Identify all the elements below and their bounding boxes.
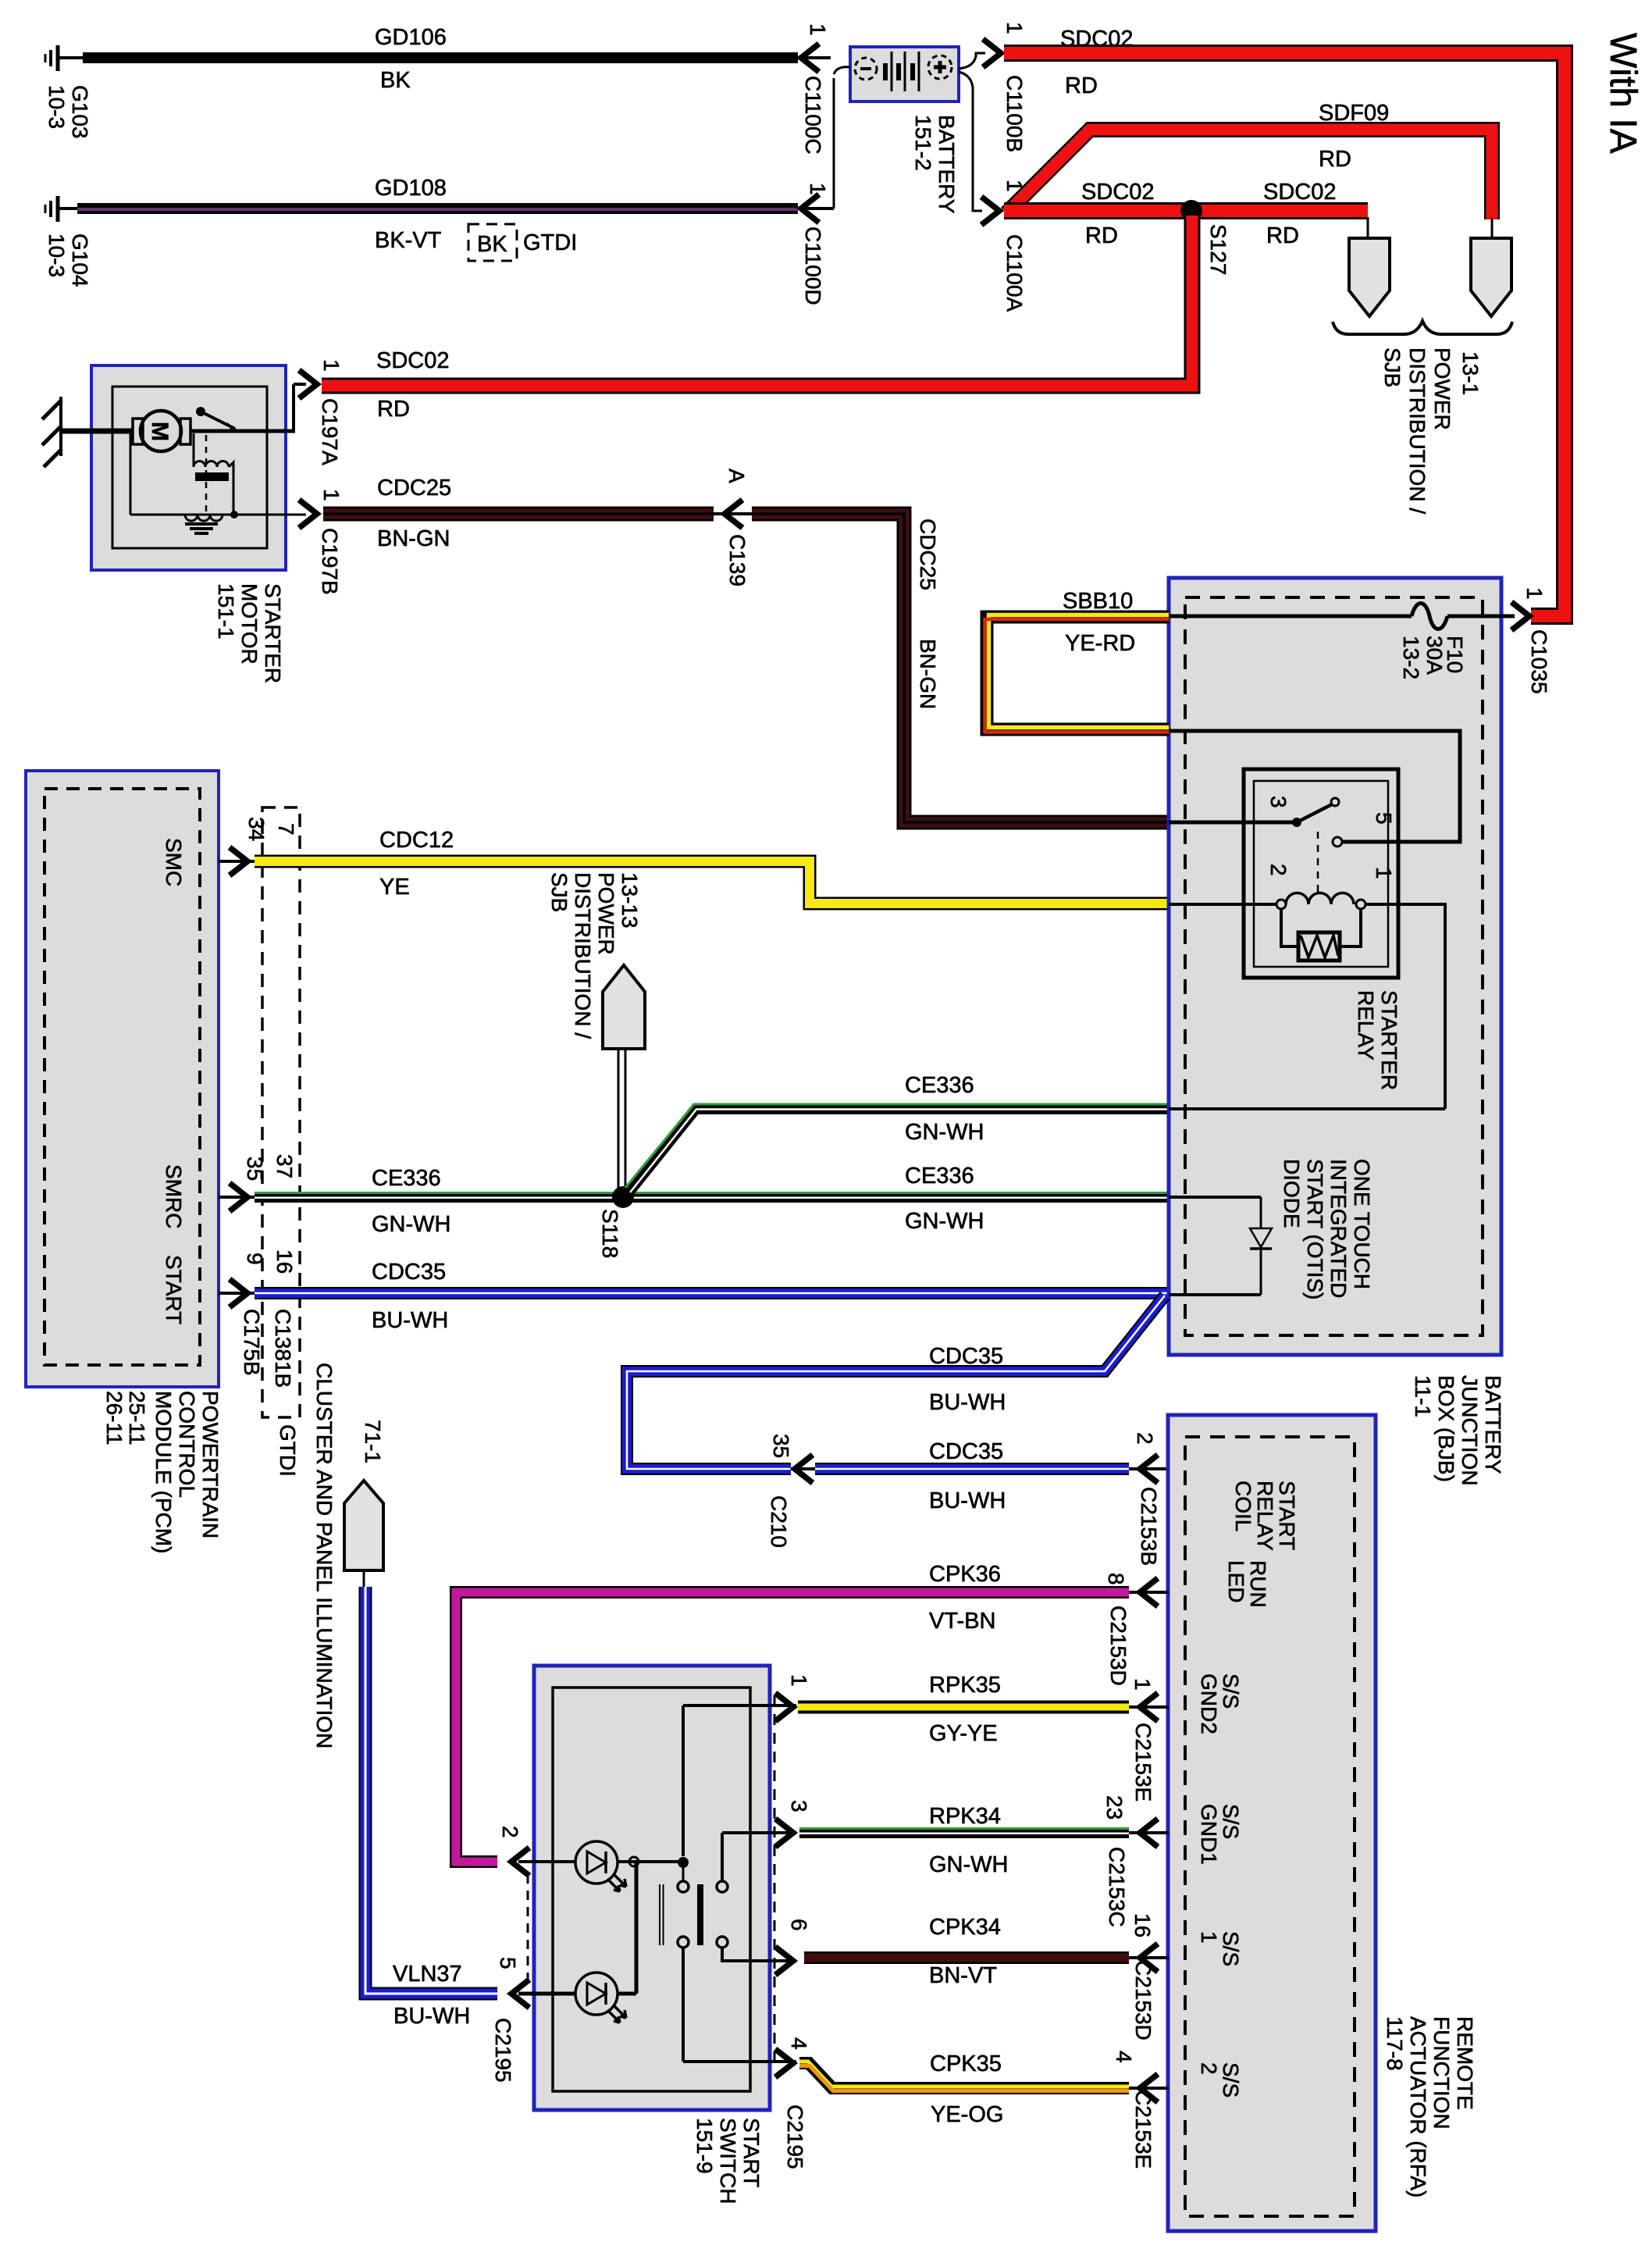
connector C2153D pin 8 (1104, 1573, 1169, 1686)
svg-text:GTDI: GTDI (523, 230, 577, 255)
svg-text:BK: BK (380, 68, 411, 93)
ground G103 (45, 45, 92, 139)
wire pin3 internal (722, 1833, 796, 1881)
wire coil to CE336 internal (1169, 903, 1445, 1109)
wire CPK34 (804, 1915, 1129, 1988)
connector 13-13 power distribution SJB (547, 872, 645, 1190)
connector C2153E pin 1 (1129, 1678, 1169, 1802)
svg-text:C1100A: C1100A (1002, 234, 1027, 312)
svg-text:CPK34: CPK34 (929, 1915, 1001, 1940)
battery junction box BJB (1169, 578, 1505, 1486)
svg-text:C2195: C2195 (491, 2018, 515, 2083)
svg-text:3: 3 (787, 1800, 811, 1812)
pin 35 SMRC (219, 1183, 258, 1211)
svg-text:71-1: 71-1 (361, 1420, 385, 1463)
svg-text:23: 23 (1102, 1795, 1127, 1820)
svg-text:16: 16 (1130, 1913, 1155, 1937)
connector C1100C (798, 23, 831, 155)
svg-text:BU-WH: BU-WH (393, 2004, 470, 2029)
svg-text:8: 8 (1104, 1573, 1128, 1585)
wire CDC35 PCM to BJB (255, 1260, 1169, 1333)
svg-text:2: 2 (1133, 1432, 1157, 1445)
wire SDC02 battery to SJB (1004, 180, 1368, 248)
svg-text:CPK36: CPK36 (929, 1562, 1001, 1587)
LED2 illumination (575, 1973, 626, 2023)
svg-text:RD: RD (377, 397, 410, 422)
wire SDF09 (1006, 101, 1492, 240)
svg-text:13-1: 13-1 (1458, 351, 1483, 395)
svg-text:C2153D: C2153D (1131, 1960, 1155, 2040)
svg-text:YE-RD: YE-RD (1065, 631, 1135, 656)
svg-text:5: 5 (496, 1957, 520, 1969)
svg-text:1: 1 (319, 359, 344, 372)
connector C197B (299, 489, 344, 595)
svg-text:RD: RD (1085, 223, 1118, 248)
wire RPK35 (798, 1673, 1129, 1746)
connector C139 (714, 469, 752, 586)
wire CDC35 BJB to C210 to RFA (627, 1296, 1165, 1513)
remote function actuator RFA (1168, 1415, 1477, 2231)
svg-text:CLUSTER AND PANEL ILLUMINATION: CLUSTER AND PANEL ILLUMINATION (312, 1363, 336, 1748)
wire CPK36 (456, 1562, 1129, 1862)
svg-text:C2153B: C2153B (1137, 1487, 1161, 1566)
svg-text:C1100C: C1100C (801, 76, 825, 155)
PCM powertrain control module (26, 771, 223, 1553)
connector C2195 pin 1 (775, 1674, 811, 1721)
wire CDC25 (323, 476, 1169, 822)
svg-text:2: 2 (1266, 864, 1291, 876)
svg-text:CDC25: CDC25 (377, 476, 451, 501)
svg-text:9: 9 (243, 1253, 267, 1265)
svg-text:C175B: C175B (240, 1309, 264, 1376)
svg-text:RD: RD (1065, 73, 1098, 98)
svg-text:GN-WH: GN-WH (905, 1209, 984, 1234)
svg-text:BU-WH: BU-WH (372, 1308, 448, 1333)
svg-text:CDC35: CDC35 (929, 1344, 1003, 1369)
wire pin1 internal (683, 1705, 796, 1856)
wire CPK35 (799, 2051, 1129, 2127)
wire SBB10 (985, 589, 1170, 732)
svg-text:BK-VT: BK-VT (375, 228, 442, 253)
connector C197A (299, 359, 344, 465)
svg-text:CE336: CE336 (372, 1166, 441, 1191)
svg-text:1: 1 (787, 1674, 811, 1687)
svg-text:M: M (147, 422, 173, 441)
svg-text:BU-WH: BU-WH (929, 1390, 1006, 1415)
wire pin2 internal (518, 1857, 678, 1866)
connector C1035 (1511, 587, 1551, 694)
connector power distribution SJB right (1471, 238, 1511, 316)
connector C175B / C1381B (240, 807, 300, 1477)
connector C1100D (798, 183, 834, 305)
svg-text:VLN37: VLN37 (393, 1962, 462, 1987)
wire GD108 (77, 176, 798, 253)
svg-text:BN-GN: BN-GN (377, 526, 450, 551)
svg-text:BK: BK (477, 232, 507, 257)
svg-text:C197B: C197B (318, 528, 342, 595)
fuse F10 30A (1169, 604, 1515, 680)
svg-text:1: 1 (1002, 22, 1027, 34)
svg-text:GTDI: GTDI (276, 1424, 300, 1477)
wire RPK34 (799, 1804, 1129, 1877)
svg-text:BN-VT: BN-VT (929, 1963, 997, 1988)
svg-text:4: 4 (1112, 2051, 1136, 2063)
svg-text:RPK34: RPK34 (929, 1804, 1001, 1829)
svg-text:SDC02: SDC02 (1263, 180, 1337, 205)
svg-text:SDC02: SDC02 (1081, 180, 1155, 205)
svg-text:SMC: SMC (162, 838, 186, 886)
svg-text:1: 1 (319, 489, 344, 501)
svg-text:37: 37 (272, 1154, 297, 1178)
svg-text:SBB10: SBB10 (1063, 589, 1133, 614)
connector power distribution SJB left (1349, 238, 1390, 316)
label With IA (1602, 33, 1643, 154)
svg-text:C2195: C2195 (783, 2105, 807, 2169)
svg-text:34: 34 (244, 817, 269, 841)
connector cluster and panel illumination (312, 1363, 385, 1748)
wire SDC02 battery to C1035 (1004, 27, 1565, 616)
svg-text:1: 1 (806, 23, 830, 36)
svg-text:CE336: CE336 (905, 1073, 974, 1098)
connector C2195 pin 6 (775, 1919, 811, 1975)
svg-text:GD106: GD106 (375, 25, 447, 50)
svg-text:RPK35: RPK35 (929, 1673, 1001, 1698)
connector C2153E pin 4 (1112, 2051, 1169, 2169)
svg-text:13-13: 13-13 (618, 872, 642, 928)
svg-text:C2153E: C2153E (1131, 2090, 1155, 2169)
svg-text:C1035: C1035 (1527, 629, 1551, 694)
svg-text:SDF09: SDF09 (1319, 101, 1389, 126)
svg-text:GD108: GD108 (375, 176, 447, 201)
svg-text:1: 1 (806, 183, 830, 195)
svg-text:C1100B: C1100B (1002, 75, 1027, 152)
svg-text:A: A (725, 469, 749, 483)
svg-text:3: 3 (1266, 796, 1291, 808)
svg-text:BN-GN: BN-GN (916, 639, 940, 709)
wire pin5 internal (518, 1862, 636, 1994)
svg-text:S127: S127 (1206, 224, 1230, 275)
svg-text:C197A: C197A (318, 398, 342, 465)
connector C2195 pin 2 (498, 1826, 529, 1985)
svg-text:CDC12: CDC12 (379, 828, 454, 853)
svg-text:C2153D: C2153D (1106, 1606, 1130, 1686)
ground G104 (45, 196, 92, 287)
svg-text:CDC35: CDC35 (929, 1439, 1003, 1464)
wire SDC02 S127 to starter (322, 216, 1192, 422)
svg-text:2: 2 (498, 1826, 522, 1838)
ground starter motor (42, 397, 62, 467)
svg-text:S118: S118 (598, 1209, 622, 1258)
svg-text:C139: C139 (725, 534, 749, 586)
splice S118 (598, 1186, 634, 1258)
brace 13-1 POWER DISTRIBUTION / SJB (1333, 321, 1512, 514)
wire GD106 (83, 25, 798, 93)
start switch 151-9 (534, 1666, 807, 2204)
svg-text:30A13-2: 30A13-2 (1399, 636, 1447, 679)
splice S127 (1180, 200, 1230, 275)
svg-text:CDC25: CDC25 (916, 519, 940, 590)
svg-text:GN-WH: GN-WH (372, 1212, 450, 1237)
connector C2195 pin 3 (775, 1800, 811, 1847)
connector C2195 pin 5 (491, 1957, 529, 2083)
svg-text:GN-WH: GN-WH (905, 1120, 984, 1145)
LED1 run indicator (575, 1841, 626, 1891)
svg-text:START: START (162, 1255, 186, 1324)
svg-text:SDC02: SDC02 (376, 348, 450, 373)
svg-text:With IA: With IA (1602, 33, 1643, 154)
svg-text:7: 7 (274, 823, 298, 836)
battery 151-2 (834, 47, 985, 214)
svg-text:SMRC: SMRC (162, 1164, 186, 1228)
svg-text:CDC35: CDC35 (372, 1260, 446, 1285)
diode OTIS one touch integrated start (1169, 1159, 1374, 1299)
connector C2153B pin 2 (1129, 1432, 1169, 1566)
wire CE336 PCM to BJB (255, 1164, 1169, 1237)
svg-text:25-1126-11: 25-1126-11 (102, 1391, 149, 1445)
svg-text:C210: C210 (767, 1495, 791, 1548)
wire CDC12 (255, 828, 1169, 904)
connector C2195 pin 4 (774, 1695, 811, 2077)
wire pin6 internal (722, 1948, 796, 1961)
svg-text:5: 5 (1372, 812, 1396, 825)
svg-text:GN-WH: GN-WH (929, 1852, 1008, 1877)
starter relay (1169, 731, 1460, 1090)
label BK GTDI (468, 224, 577, 261)
svg-text:C2153E: C2153E (1131, 1723, 1155, 1802)
svg-text:4: 4 (787, 2037, 811, 2050)
svg-text:6: 6 (787, 1919, 811, 1931)
svg-text:YE-OG: YE-OG (931, 2102, 1003, 2127)
svg-text:1: 1 (1372, 867, 1396, 879)
svg-text:SDC02: SDC02 (1060, 27, 1134, 52)
switch contacts (660, 1857, 728, 1948)
svg-text:YE: YE (379, 875, 410, 900)
svg-text:1: 1 (1522, 587, 1547, 600)
svg-text:BU-WH: BU-WH (929, 1488, 1006, 1513)
wire pin4 internal (683, 1948, 796, 2062)
connector C210 (767, 1434, 815, 1548)
pin 34 SMC (219, 847, 258, 875)
svg-text:16: 16 (272, 1249, 297, 1274)
svg-text:RD: RD (1319, 147, 1351, 172)
connector C2153C pin 23 (1102, 1795, 1169, 1927)
connector C2153D pin 16 (1129, 1913, 1169, 2040)
svg-text:35: 35 (243, 1157, 267, 1181)
svg-text:1: 1 (1130, 1678, 1155, 1691)
starter motor 151-1 (61, 365, 306, 683)
svg-text:C2153C: C2153C (1105, 1847, 1129, 1927)
svg-text:RD: RD (1266, 223, 1299, 248)
svg-text:C1381B: C1381B (271, 1309, 295, 1388)
svg-text:CPK35: CPK35 (930, 2051, 1002, 2076)
pin 9 START (219, 1279, 258, 1307)
wire CE336 upper branch (625, 1073, 1169, 1192)
svg-text:CE336: CE336 (905, 1164, 974, 1189)
connector C1100A (981, 180, 1027, 312)
svg-text:C1100D: C1100D (801, 226, 825, 305)
svg-text:35: 35 (769, 1434, 793, 1458)
svg-text:RUNLED: RUNLED (1224, 1560, 1270, 1608)
wire VLN37 (365, 1587, 497, 2029)
svg-text:GY-YE: GY-YE (929, 1721, 998, 1746)
connector C1100B (983, 22, 1027, 152)
svg-text:VT-BN: VT-BN (929, 1609, 995, 1634)
